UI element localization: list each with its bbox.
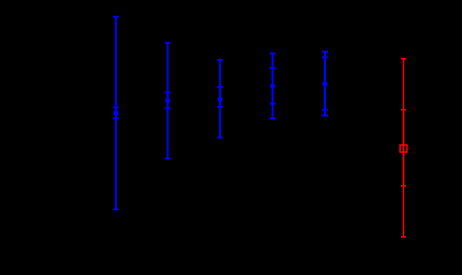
data point 2 (blue) circle marker bbox=[165, 98, 170, 103]
data point 3 (blue) inner error bar bbox=[217, 87, 223, 107]
data point 2 (blue) outer error bar bbox=[165, 43, 171, 159]
data point 1 (blue) outer error bar bbox=[113, 17, 119, 210]
data point 5 (blue) inner error bar bbox=[322, 57, 328, 109]
data point 6 (red) open square marker bbox=[400, 145, 407, 152]
data point 5 (blue) outer error bar bbox=[322, 52, 328, 116]
data point 6 (red) outer error bar bbox=[401, 59, 406, 237]
data point 4 (blue) inner error bar bbox=[270, 68, 276, 104]
data point 3 (blue) outer error bar bbox=[217, 60, 223, 138]
data point 1 (blue) circle marker bbox=[113, 110, 118, 115]
data point 6 (red) inner error bar bbox=[401, 110, 406, 186]
data point 5 (blue) circle marker bbox=[322, 81, 327, 86]
data point 1 (blue) inner error bar bbox=[113, 107, 119, 118]
data point 4 (blue) circle marker bbox=[270, 84, 275, 89]
data point 2 (blue) inner error bar bbox=[165, 92, 171, 108]
data point 3 (blue) circle marker bbox=[218, 97, 223, 102]
data point 4 (blue) outer error bar bbox=[270, 53, 276, 118]
